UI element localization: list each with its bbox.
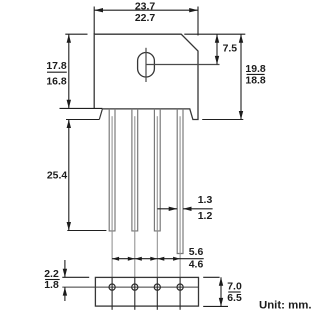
dimension 23.7/22.7 width bbox=[94, 7, 198, 36]
lead 1 bbox=[109, 109, 115, 231]
dimension 2.2/1.8 hole offset bbox=[62, 260, 89, 301]
svg-text:18.8: 18.8 bbox=[245, 75, 266, 86]
svg-text:4.6: 4.6 bbox=[189, 259, 204, 270]
hole circle 1 bbox=[109, 284, 115, 290]
bottom view rectangle bbox=[95, 277, 198, 306]
dimension 7.5 chamfer bbox=[184, 33, 245, 35]
mounting hole oval bbox=[138, 53, 155, 78]
hole circle 2 bbox=[132, 284, 138, 290]
body outline bbox=[94, 34, 198, 119]
bottom view lead 4 line bbox=[179, 277, 181, 309]
svg-text:17.8: 17.8 bbox=[46, 61, 67, 72]
body left foot diagonal bbox=[99, 109, 102, 120]
svg-text:1.8: 1.8 bbox=[44, 280, 59, 291]
svg-text:23.7: 23.7 bbox=[135, 1, 156, 12]
dimension 25.4 lead length bbox=[66, 120, 106, 231]
hole vertical centerline bbox=[145, 48, 147, 82]
dimension 7.0/6.5 bottom view height bbox=[203, 277, 228, 306]
svg-text:16.8: 16.8 bbox=[46, 76, 67, 87]
hole horizontal centerline bbox=[146, 64, 220, 66]
bottom view horizontal centerline bbox=[62, 286, 198, 288]
svg-text:25.4: 25.4 bbox=[47, 171, 68, 182]
dimension 1.3/1.2 lead width bbox=[157, 208, 177, 210]
svg-text:6.5: 6.5 bbox=[227, 293, 242, 304]
hole circle 4 bbox=[177, 284, 183, 290]
svg-text:7.5: 7.5 bbox=[223, 43, 238, 54]
bottom view lead 3 line bbox=[156, 277, 158, 309]
dimension 17.8/16.8 body height bbox=[60, 34, 103, 108]
lead 3 bbox=[154, 109, 160, 231]
dimension 19.8/18.8 overall height bbox=[202, 34, 243, 119]
svg-text:1.3: 1.3 bbox=[198, 195, 213, 206]
svg-text:7.0: 7.0 bbox=[227, 282, 242, 293]
svg-text:1.2: 1.2 bbox=[198, 211, 213, 222]
lead 4 centerline below tip bbox=[179, 254, 181, 278]
svg-text:2.2: 2.2 bbox=[44, 269, 59, 280]
bottom view lead 2 line bbox=[134, 277, 136, 309]
dimension 5.6/4.6 lead pitch bbox=[112, 258, 204, 260]
svg-text:Unit: mm.: Unit: mm. bbox=[259, 300, 312, 312]
bottom view lead 1 line bbox=[111, 277, 113, 309]
svg-text:22.7: 22.7 bbox=[135, 13, 156, 24]
lead 3 centerline below tip bbox=[156, 231, 158, 278]
lead 1 centerline below tip bbox=[111, 231, 113, 278]
svg-text:19.8: 19.8 bbox=[245, 64, 266, 75]
lead 4 bbox=[177, 109, 183, 254]
lead 2 centerline below tip bbox=[134, 231, 136, 278]
hole circle 3 bbox=[154, 284, 160, 290]
lead 2 bbox=[132, 109, 138, 231]
svg-text:5.6: 5.6 bbox=[189, 247, 204, 258]
